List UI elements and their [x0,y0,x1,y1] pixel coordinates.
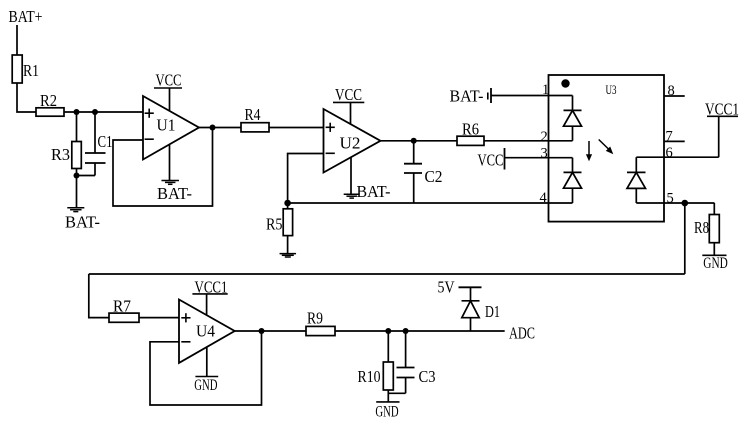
svg-text:3: 3 [541,146,548,162]
svg-text:R5: R5 [266,214,283,233]
resistor R7 [109,297,139,323]
svg-text:4: 4 [540,190,548,206]
svg-text:R3: R3 [51,145,70,164]
resistor R6 [457,120,484,146]
ground GND (below R10) [375,402,399,420]
power VCC (U1) [154,71,182,112]
power VCC (U2) [333,85,364,124]
pin 1 [491,82,549,98]
svg-text:C1: C1 [98,132,113,151]
wire [235,330,306,332]
wire [139,317,179,319]
pin 1 marker dot [561,79,569,87]
wire [16,25,18,55]
capacitor C3 [388,331,435,393]
svg-text:C2: C2 [425,167,443,186]
port BAT- (pin 1) [450,87,492,106]
ground BAT- (U1) [157,145,192,203]
pin 3 [505,146,549,162]
capacitor C1 [77,112,113,176]
wire [684,203,686,274]
svg-text:U2: U2 [340,134,361,153]
svg-text:ADC: ADC [509,324,535,343]
svg-text:R10: R10 [358,367,381,386]
junction [92,109,98,115]
wire [76,176,78,208]
svg-text:R7: R7 [113,297,131,316]
junction [259,328,265,334]
svg-text:R2: R2 [40,91,57,110]
wire [381,140,458,142]
wire (U4 feedback) [150,331,262,405]
capacitor C2 [404,141,443,203]
diode D1 [462,287,501,331]
pin 7 [664,129,685,145]
power VCC1 (right) [705,100,739,158]
svg-text:GND: GND [375,403,398,420]
svg-text:2: 2 [541,129,548,145]
junction [74,109,80,115]
svg-text:GND: GND [703,255,728,272]
ground BAT- (U2) [344,158,391,201]
op-amp U2 [324,109,381,173]
svg-text:U4: U4 [196,322,215,341]
power 5V [438,277,482,296]
wire [269,127,324,129]
ground GND (below R8) [702,255,728,272]
wire [17,83,36,112]
wire [199,127,241,129]
svg-text:BAT+: BAT+ [9,7,43,26]
resistor R1 [12,55,39,83]
svg-text:VCC: VCC [156,71,182,90]
svg-text:R6: R6 [462,120,479,139]
LED D-a (pins 1-2) [549,96,582,141]
junction [284,200,291,207]
svg-text:BAT-: BAT- [157,184,192,203]
wire (net to pin 4) [288,202,549,204]
svg-text:R8: R8 [694,218,709,237]
resistor R9 [306,308,335,335]
svg-text:5: 5 [667,191,674,207]
svg-text:C3: C3 [419,367,436,386]
optocoupler light arrow 1 [588,141,590,156]
ground BAT- (below R3) [65,208,100,232]
ground (below R5) [280,253,297,255]
junction [385,328,391,334]
junction [682,200,689,207]
svg-text:6: 6 [666,145,673,161]
pin 5 [664,191,715,207]
svg-text:U1: U1 [157,116,176,135]
op-amp U1 [143,96,199,160]
ground GND (U4) [194,347,218,394]
resistor R3 [51,112,81,176]
resistor R10 [358,331,394,402]
junction [74,173,80,179]
pin 6 [664,145,719,161]
svg-text:R9: R9 [307,308,323,327]
power VCC1 (U4) [192,277,227,315]
svg-text:GND: GND [194,377,217,394]
svg-text:BAT-: BAT- [65,213,100,232]
junction [411,138,417,144]
wire (U2 feedback) [288,154,324,204]
junction [210,125,216,131]
svg-text:U3: U3 [606,83,617,97]
optocoupler light arrow 2 [599,140,609,150]
wire (U1 feedback) [113,128,213,207]
op-amp U4 [179,300,235,363]
resistor R5 [266,203,293,253]
junction [403,328,409,334]
svg-text:5V: 5V [438,277,455,296]
svg-text:R1: R1 [23,61,39,80]
wire [64,111,143,113]
optocoupler U3 box [549,75,665,222]
svg-text:D1: D1 [485,302,500,321]
wire [484,140,549,142]
resistor R2 [36,91,64,116]
pin 8 [664,83,685,99]
wire [89,274,109,318]
svg-text:VCC: VCC [335,85,362,104]
svg-text:R4: R4 [245,105,261,124]
photodiode (pins 6-5) [627,157,664,203]
LED D-b (pins 3-4) [549,158,582,203]
resistor R8 [694,203,719,255]
wire (ADC net) [335,330,505,332]
svg-text:BAT-: BAT- [357,182,391,201]
port VCC (pin 3) [478,148,505,170]
resistor R4 [241,105,269,132]
wire (long bottom bus) [89,273,685,275]
svg-text:VCC: VCC [478,151,504,170]
svg-text:BAT-: BAT- [450,87,484,106]
